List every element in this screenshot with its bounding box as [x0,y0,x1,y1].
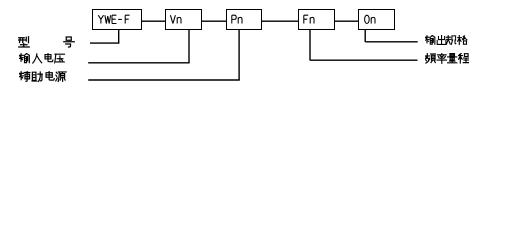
wire drop from Fn [309,30,311,61]
node label 辅助电源 (auxiliary power) [19,71,68,83]
wire drop from YWE-F [118,30,120,44]
wire Fn to On [334,20,358,22]
box YWE-F [92,9,143,30]
label YWE-F [98,15,131,24]
node label 频率量程 (frequency range) [425,53,468,64]
wire drop from Vn [188,30,190,63]
wire Vn to Pn [201,20,226,22]
wire drop from On [364,30,366,43]
label Fn [303,15,316,24]
node label 型 号 (model) [18,36,75,48]
label Pn [231,15,244,24]
node label 输出规格 (output spec) [425,35,467,46]
box Fn [298,9,335,30]
wire YWE-F to Vn [142,20,166,22]
glyph definitions (hidden) [0,0,1,1]
box On [358,9,395,30]
label On [364,15,377,24]
wire leader to 型号 [90,42,119,44]
node label 输入电压 (input voltage) [19,53,66,64]
wire drop from Pn [238,30,240,81]
wire leader to 输入电压 [88,62,189,64]
wire Pn to Fn [261,20,298,22]
label Vn [170,15,183,24]
box Vn [165,9,202,30]
box Pn [226,9,262,30]
wires overlay [0,0,514,92]
wire leader to 辅助电源 [88,79,240,81]
wire leader to 输出规格 [365,41,418,43]
wire leader to 频率量程 [310,59,418,61]
